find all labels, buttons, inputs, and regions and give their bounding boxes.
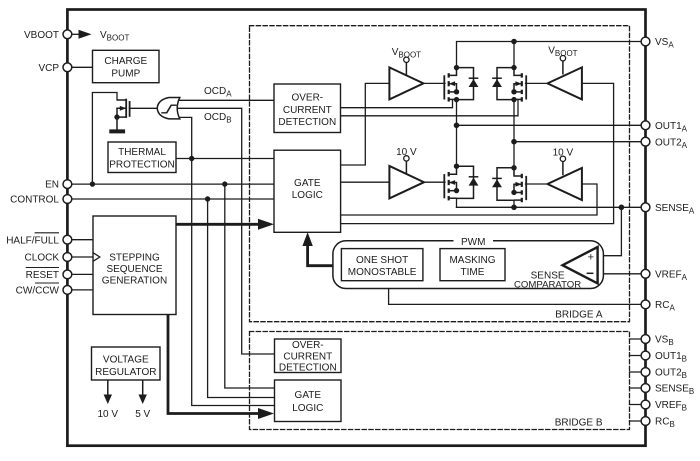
wire RCA to one shot monostable [389,281,646,305]
arrowhead VBOOT [79,30,92,39]
chip outer border [67,10,645,446]
wire EN line [67,183,274,185]
svg-text:LOGIC: LOGIC [292,403,323,414]
ground [109,117,125,131]
bridge B dashed box [250,332,630,430]
wire VREFA to comparator minus input [599,273,646,275]
wire OCD_A net: OR gate input to over-current detection A [170,99,274,101]
block over-current detection B [275,339,342,373]
svg-text:CW/CCW: CW/CCW [16,286,60,297]
svg-text:PROTECTION: PROTECTION [109,159,175,170]
clock input triangle on stepping block [93,253,100,262]
pin VREFB [641,400,650,409]
pin RESET [63,270,72,279]
block over-current detection A [274,84,341,133]
node body HS A [454,89,459,94]
svg-text:BRIDGE A: BRIDGE A [555,309,603,320]
pin RCA [641,300,650,309]
wire gate logic A output to low-side buffer B [341,184,597,215]
op-amp sense comparator [563,247,598,283]
svg-text:MONOSTABLE: MONOSTABLE [348,267,417,278]
wire RESET to stepping block [67,273,93,275]
pin CONTROL [63,195,72,204]
label PWM with gap mask [454,236,494,246]
arrowhead into gate logic B [258,408,274,419]
node sense comparator tap [619,205,625,211]
node source HS B [511,97,516,102]
pin VSA [641,37,650,46]
svg-text:CURRENT: CURRENT [283,105,332,116]
buffer high-side A with VBOOT supply [389,57,423,99]
block one shot monostable [341,249,423,281]
node OUT1A [454,123,460,129]
wire HALF/FULL to stepping block [67,239,93,241]
wire EN branch down to gate logic B [225,184,275,388]
svg-text:MASKING: MASKING [449,255,495,266]
svg-text:10 V: 10 V [396,147,417,158]
node thermal branch [189,156,194,161]
svg-text:VBOOT: VBOOT [24,30,59,41]
buffer low-side A with 10V supply [389,156,424,199]
wire OCD_B net: OR gate through line down to bridge B OCD [129,108,274,354]
arrowhead into gate logic A [258,219,274,230]
svg-text:EN: EN [45,180,59,191]
wire masking time to comparator output [505,264,562,266]
pin OUT2B [641,368,650,377]
wire buffer to gate, low-side B [526,183,546,185]
node OUT2A [511,139,517,145]
bridge A dashed box [250,26,630,322]
node drain HS B [511,65,516,70]
block stepping sequence generation [93,216,176,315]
wire stepping sequence to gate logic A (thick) [176,223,260,226]
wire thermal protection output to gate logic A [176,158,274,160]
wire SENSEB pin stub [630,387,646,389]
voltage regulator 5V output arrow [139,380,147,404]
svg-text:ONE SHOT: ONE SHOT [356,255,408,266]
svg-text:CLOCK: CLOCK [25,253,60,264]
node EN-pulldown drain [90,181,95,186]
node body HS B [511,89,516,94]
wire over-current detection A sense line 2 [341,100,519,116]
node VSA rail [511,39,517,45]
wire CW/CCW to stepping block [67,289,93,291]
svg-text:VCP: VCP [38,63,59,74]
wire sense tap to comparator plus input [599,207,622,255]
wire OUT1B pin stub [630,355,646,357]
diode body diode high-side B [492,68,514,100]
block masking time [440,249,505,281]
svg-text:10 V: 10 V [98,409,119,420]
svg-text:OVER-: OVER- [291,93,323,104]
node sense LS B [511,205,517,211]
arrowhead one shot into gate logic A [302,232,312,246]
wire right half-bridge drain riser [513,42,515,68]
wire one shot monostable to gate logic A (thick) [308,245,342,266]
wire buffer to gate, low-side A [425,181,445,183]
wire pulldown mosfet drain frame to EN [92,93,117,185]
wire VCP to charge pump [67,66,92,68]
svg-text:PUMP: PUMP [111,69,140,80]
svg-text:COMPARATOR: COMPARATOR [514,280,581,291]
pin OUT2A [641,137,650,146]
wire VBOOT pin stub [67,33,79,35]
svg-text:OVER-: OVER- [292,340,324,351]
block gate logic B [275,380,342,422]
wire low-side source drops [456,198,458,207]
node source HS A [454,97,459,102]
pin VSB [641,335,650,344]
diode body diode high-side A [457,68,479,100]
wire CONTROL line [67,198,274,200]
transistor high-side A mosfet [444,68,456,102]
svg-text:SENSEB: SENSEB [655,384,694,397]
wire VREFB pin stub [630,404,646,406]
node body LS A [454,188,459,193]
node drain HS A [454,65,459,70]
node body LS B [511,190,516,195]
block charge pump [93,50,160,82]
svg-text:RESET: RESET [26,270,59,281]
node pulldown source [114,114,119,119]
wire RCB pin stub [630,420,646,422]
node EN branch [222,181,227,186]
svg-text:SEQUENCE: SEQUENCE [106,264,162,275]
buffer low-side B with 10V supply [548,156,582,200]
svg-text:CHARGE: CHARGE [104,56,147,67]
wire OUT1A line [457,124,646,126]
svg-text:TIME: TIME [461,267,485,278]
wire OUT2B pin stub [630,371,646,373]
svg-text:VOLTAGE: VOLTAGE [103,354,149,365]
voltage regulator 10V output arrow [104,380,112,404]
wire OR gate lower input from thermal net down to gate logic B [177,117,275,405]
svg-text:BRIDGE B: BRIDGE B [555,417,603,428]
svg-text:DETECTION: DETECTION [279,363,337,374]
wire CLOCK to stepping block [67,256,93,258]
svg-text:+: + [588,251,594,263]
wire buffer to gate, high-side B [526,82,546,84]
svg-text:THERMAL: THERMAL [118,147,166,158]
wire one shot to masking time [423,264,440,266]
svg-text:HALF/FULL: HALF/FULL [6,235,59,246]
svg-text:LOGIC: LOGIC [292,190,323,201]
svg-text:CONTROL: CONTROL [10,195,59,206]
wire stepping sequence to gate logic B (thick) [168,315,260,414]
svg-text:5 V: 5 V [135,409,150,420]
svg-text:GATE: GATE [294,178,321,189]
op-amp U1 OR gate of OCD and thermal signals [157,98,180,119]
diode body diode low-side B [492,168,514,200]
wire buffer to gate, high-side A [423,82,445,84]
block thermal protection [108,142,176,173]
transistor Q1 pulldown mosfet on EN [117,99,130,118]
pwm group rounded box [333,241,604,289]
wire OUT2A line [514,141,646,143]
wire VSA supply rail [457,42,646,68]
svg-text:REGULATOR: REGULATOR [95,367,156,378]
wire CONTROL branch down to gate logic B [208,199,275,398]
block voltage regulator [92,347,161,380]
svg-text:GATE: GATE [295,390,322,401]
pin HALF/FULL [63,235,72,244]
svg-text:GENERATION: GENERATION [102,276,167,287]
svg-text:PWM: PWM [461,237,485,248]
pin EN [63,180,72,189]
node CONTROL branch [205,196,210,201]
pin CLOCK [63,253,72,262]
diode body diode low-side A [457,166,479,198]
block gate logic A [274,150,341,232]
wire gate logic A output to high-side buffer A [341,83,390,165]
pin RCB [641,417,650,426]
node drain LS B [511,165,516,170]
wire left half-bridge mid column and OUT1A line [456,100,458,167]
wire right half-bridge mid column [513,100,515,168]
pin SENSEA [641,203,650,212]
pin OUT1A [641,121,650,130]
svg-text:10 V: 10 V [553,147,574,158]
buffer high-side B with VBOOT supply [548,56,582,100]
pin VCP [63,63,72,72]
wire gate logic A output to low-side buffer A [341,181,390,183]
transistor high-side B mosfet [514,68,526,102]
pin VBOOT [63,30,72,39]
wire SENSEA rail [457,206,646,208]
node drain LS A [454,164,459,169]
wire gate logic A output to high-side buffer B [341,83,614,223]
svg-text:DETECTION: DETECTION [278,117,336,128]
transistor low-side B mosfet [514,168,526,202]
wire VSB pin stub [630,338,646,340]
pin CW/CCW [63,286,72,295]
pin OUT1B [641,351,650,360]
pin SENSEB [641,384,650,393]
wire over-current detection A sense line 1 [341,100,453,108]
svg-text:STEPPING: STEPPING [109,253,160,264]
pin VREFA [641,269,650,278]
svg-text:CURRENT: CURRENT [283,351,332,362]
transistor low-side A mosfet [444,166,456,200]
